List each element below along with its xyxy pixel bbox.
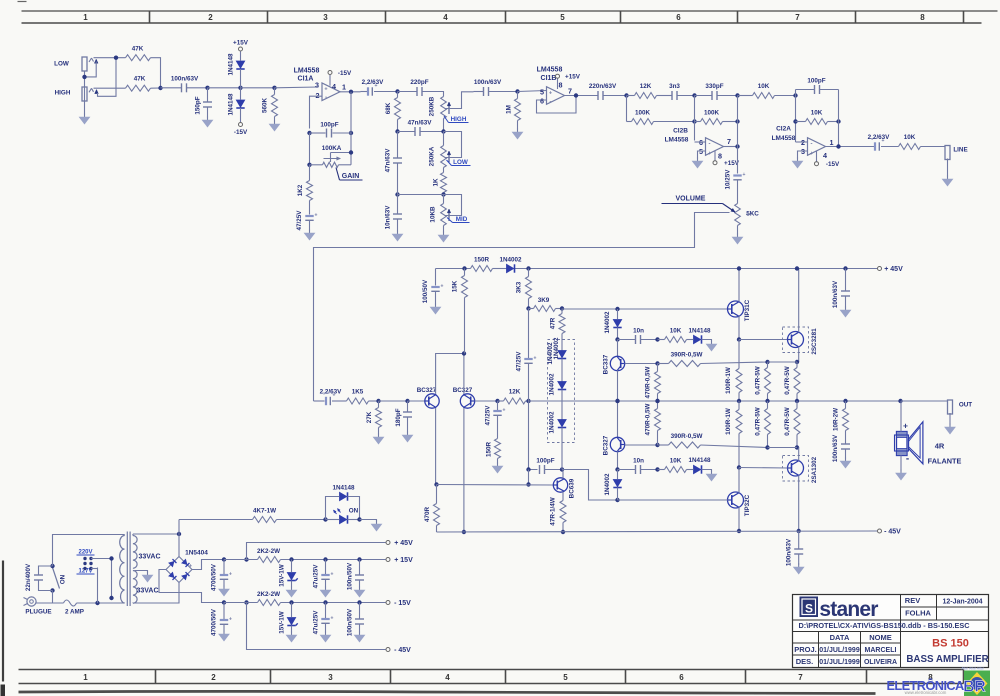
ground (center tap) — [147, 572, 149, 576]
ground (47u pos) — [325, 587, 327, 591]
wire to 47u n — [325, 603, 327, 619]
svg-text:47u/25V: 47u/25V — [313, 564, 320, 589]
watermark ELETRONICA BR — [887, 667, 991, 696]
wire 470R to rail — [657, 394, 659, 402]
wire 150pF to gnd — [207, 107, 209, 118]
wire cap to node G — [489, 91, 518, 93]
wire 470R to 390R row — [657, 431, 659, 446]
wire node to 10K — [658, 339, 665, 341]
node P1 junction — [376, 399, 380, 403]
wire 1K5 to node P1 — [369, 400, 379, 402]
junction — [323, 600, 327, 604]
svg-text:470R-0,5W: 470R-0,5W — [645, 404, 652, 436]
svg-text:150pF: 150pF — [195, 96, 202, 114]
resistor 47R-1/4W — [560, 501, 566, 523]
wire 10R to cap — [845, 431, 847, 445]
wire 100K to node N — [723, 121, 738, 123]
label 220V — [77, 550, 95, 556]
svg-text:100K: 100K — [635, 110, 651, 117]
capacitor 2,2/63V (interstage) — [367, 87, 369, 95]
svg-text:+ 45V: + 45V — [884, 266, 903, 273]
capacitor 100pF (CI1A fb) — [326, 129, 328, 138]
wire diode to node C — [240, 69, 242, 88]
svg-text:390R-0,5W: 390R-0,5W — [671, 433, 703, 440]
wire node I corner — [627, 121, 632, 123]
wire 390R left — [658, 363, 669, 365]
wire BC337 down — [617, 370, 619, 401]
junction — [843, 266, 847, 270]
wire pin2 in — [796, 141, 808, 143]
resistor 0,47R-5W (top right) — [794, 368, 800, 394]
svg-text:47/25V: 47/25V — [485, 405, 492, 426]
svg-text:7: 7 — [795, 13, 800, 22]
junction — [244, 600, 248, 604]
wire 100R to emitter node — [738, 434, 740, 468]
wire fb mid left — [796, 121, 806, 123]
wire 10K to diode — [687, 339, 694, 341]
ground (27K) — [378, 434, 380, 438]
terminal +15V — [239, 47, 243, 51]
svg-text:PROJ.: PROJ. — [794, 645, 817, 654]
capacitor 47u/25V (pos) — [321, 574, 329, 576]
capacitor 2,2/63V (PA input) — [325, 397, 327, 405]
svg-text:15V-1W: 15V-1W — [279, 564, 286, 586]
wire BC639 collector — [562, 470, 564, 479]
svg-text:47n/63V: 47n/63V — [408, 120, 433, 127]
resistor 2K2-2W (neg) — [258, 600, 281, 606]
svg-text:www.eletronicabr.com: www.eletronicabr.com — [905, 690, 947, 695]
junction output rail — [765, 399, 769, 403]
svg-text:CI1A: CI1A — [298, 75, 314, 82]
svg-text:220pF: 220pF — [410, 79, 428, 86]
wire BC639 emitter — [562, 492, 564, 501]
svg-text:12K: 12K — [640, 83, 652, 90]
wire HIGH pot bottom — [443, 119, 445, 132]
junction — [109, 596, 113, 600]
wire cap to volume — [737, 181, 739, 204]
svg-text:REV: REV — [905, 596, 920, 605]
svg-text:150R: 150R — [486, 442, 493, 458]
resistor 3K9 — [534, 306, 556, 312]
ground (OUT) — [949, 424, 951, 428]
wire node E to 220pF — [398, 91, 417, 93]
wire 4K7 to LED node — [277, 519, 326, 521]
svg-text:22n/400V: 22n/400V — [25, 563, 32, 591]
wire res to link bl — [767, 435, 769, 448]
LED ON — [334, 509, 348, 524]
wire cap to 10K — [881, 146, 899, 148]
wire cap plate in — [474, 91, 484, 93]
svg-text:100KA: 100KA — [322, 145, 342, 152]
opamp signs — [549, 91, 552, 106]
wire pin4 stub — [329, 75, 331, 86]
wire 1M to gnd — [517, 121, 519, 130]
wire rail to OUT jack — [901, 400, 948, 402]
svg-text:3: 3 — [323, 13, 328, 22]
wire 3K3 to node — [528, 299, 530, 309]
svg-text:4: 4 — [823, 151, 827, 160]
junction — [655, 467, 659, 471]
svg-text:3: 3 — [315, 81, 319, 90]
junction — [462, 266, 466, 270]
resistor 2K2-2W (pos) — [258, 557, 281, 563]
wire BC327 down — [617, 451, 619, 469]
resistor 150R (rail) — [471, 266, 493, 272]
junction output rail — [795, 399, 799, 403]
wire node J to 330pF — [695, 95, 713, 97]
resistor 470R-0,5W (lower) — [655, 409, 661, 431]
junction — [765, 445, 769, 449]
wire node down to cap — [528, 309, 530, 359]
wire VAS node to 470R — [436, 485, 438, 504]
wire cap bottom — [39, 580, 53, 591]
svg-text:2K2-2W: 2K2-2W — [257, 548, 280, 555]
wire 12K to node P4 — [526, 400, 529, 402]
junction output rail — [843, 399, 847, 403]
wire node E down — [397, 92, 399, 98]
junction — [655, 337, 659, 341]
wire cap to node — [397, 163, 399, 195]
svg-text:4: 4 — [443, 13, 448, 22]
resistor 27K — [376, 408, 382, 428]
resistor 10K (CI2A fb) — [806, 119, 828, 125]
bridge rectifier 1N5404 — [166, 557, 192, 583]
terminal -15V (CI1A) — [328, 71, 332, 75]
label VOLUME — [662, 196, 736, 213]
capacitor 220pF — [416, 87, 418, 96]
wire TIP32C collector — [738, 507, 740, 531]
capacitor 100n/63V (zobel) — [841, 443, 850, 445]
wire 47u gnd — [325, 580, 327, 588]
wire to LED — [326, 519, 340, 521]
svg-text:+: + — [903, 421, 908, 431]
potentiometer 100KA (GAIN) — [323, 153, 352, 168]
svg-text:6: 6 — [676, 13, 681, 22]
resistor 1M — [515, 99, 521, 121]
wire jack sleeve — [84, 71, 86, 115]
wire rail to speaker — [900, 401, 902, 432]
wire 2SA base — [739, 467, 788, 470]
svg-text:250KB: 250KB — [429, 96, 436, 116]
svg-text:4: 4 — [445, 673, 450, 682]
jack J2 HIGH — [82, 87, 87, 101]
svg-text:1K5: 1K5 — [352, 389, 364, 396]
junction — [307, 131, 311, 135]
wire node J down — [694, 96, 696, 141]
wire link to res r — [796, 362, 798, 368]
wire row H — [398, 194, 444, 196]
node J junction — [692, 93, 696, 97]
wire cap to gnd p — [845, 296, 847, 308]
svg-text:2SA1302: 2SA1302 — [811, 456, 818, 483]
wire output rail — [529, 400, 948, 402]
node A junction — [158, 86, 162, 90]
svg-text:4K7-1W: 4K7-1W — [253, 508, 276, 515]
wire node to 10n — [397, 195, 399, 215]
svg-text:33VAC: 33VAC — [138, 554, 160, 561]
junction — [795, 266, 799, 270]
terminal -15V (CI2A) — [815, 162, 819, 166]
wire chain 3 — [561, 428, 563, 470]
junction CI2A out — [836, 144, 840, 148]
wire 330pF to node K — [717, 95, 738, 97]
wire rail to res br — [796, 401, 798, 409]
wire pin2 to feedback — [310, 96, 323, 128]
wire 27K gnd — [378, 428, 380, 435]
capacitor 2,2/63V (line out) — [874, 142, 876, 150]
wire tap link — [91, 559, 112, 599]
ground (10n) — [397, 231, 399, 235]
svg-text:1K2: 1K2 — [297, 184, 304, 196]
junction — [526, 467, 530, 471]
wire out down to cap — [737, 147, 739, 174]
svg-text:HIGH: HIGH — [451, 116, 467, 123]
scan edge left — [2, 561, 4, 682]
resistor 68K — [395, 98, 401, 120]
wire Q2 collector down — [463, 408, 465, 532]
terminal +15V (PSU) — [386, 558, 390, 562]
transistor TIP31C — [728, 301, 744, 317]
svg-text:+15V: +15V — [565, 74, 581, 81]
junction — [737, 337, 741, 341]
wire 10n to gnd — [397, 219, 399, 232]
terminal +45V — [878, 267, 882, 271]
wire 100n gnd n — [359, 624, 361, 633]
top ruler band — [22, 11, 998, 23]
svg-text:1: 1 — [342, 83, 346, 92]
wire to diode — [617, 470, 619, 480]
wire LED out — [348, 519, 360, 521]
svg-text:7: 7 — [727, 137, 731, 146]
wire 47n to pot node — [420, 131, 444, 133]
capacitor 47u/25V (neg) — [321, 618, 329, 620]
wire CI1A out to cap — [361, 91, 368, 93]
wire cap down to P4 — [528, 364, 530, 401]
wire CI1B fb loop — [537, 96, 577, 114]
junction CI1A out — [349, 90, 353, 94]
wire 100n gnd — [359, 580, 361, 588]
wire fuse to transformer — [77, 602, 125, 604]
svg-text:1N4002: 1N4002 — [553, 337, 560, 360]
wire chain mid — [617, 401, 619, 438]
capacitor 150pF — [203, 101, 212, 103]
svg-text:LM4558: LM4558 — [294, 68, 320, 75]
svg-text:2,2/63V: 2,2/63V — [868, 134, 891, 141]
svg-text:100R-1W: 100R-1W — [725, 367, 732, 394]
svg-text:5: 5 — [560, 13, 565, 22]
wire 150R gnd — [497, 459, 499, 464]
svg-text:10/25V: 10/25V — [725, 169, 732, 190]
svg-text:6: 6 — [679, 673, 684, 682]
wire 390R to emitter link — [701, 362, 768, 364]
capacitor 47n/63V (shunt) — [393, 157, 402, 159]
svg-text:10K: 10K — [670, 328, 682, 335]
resistor 3K3 — [526, 277, 532, 299]
ground (bottom snubber) — [711, 471, 713, 475]
wire center tap — [135, 571, 148, 573]
wire node P1 down — [378, 401, 380, 408]
wire chain top — [617, 309, 619, 320]
wire fb top right — [820, 89, 839, 91]
wire node C to node D — [241, 87, 275, 89]
capacitor 4700/50V (pos) — [220, 574, 228, 576]
diode 1N4148 (LED bypass) — [340, 492, 347, 500]
svg-text:100n/63V: 100n/63V — [171, 76, 199, 83]
svg-text:7: 7 — [568, 86, 572, 95]
svg-text:3K3: 3K3 — [516, 281, 523, 293]
svg-text:GAIN: GAIN — [342, 173, 360, 180]
capacitor 100pF (VAS) — [539, 465, 541, 474]
junction — [561, 530, 565, 534]
svg-text:BC327: BC327 — [603, 435, 610, 455]
wire to zener — [291, 560, 293, 573]
svg-text:LM4558: LM4558 — [772, 135, 796, 142]
diode 1N4002 (chain 3) — [558, 420, 566, 427]
ground (100n pos) — [359, 587, 361, 591]
node P2 junction — [405, 399, 409, 403]
junction — [50, 564, 54, 568]
wire +45 branch — [247, 543, 386, 560]
wire node P2 to Q1 — [408, 400, 425, 402]
svg-text:33VAC: 33VAC — [136, 588, 158, 595]
svg-text:1: 1 — [83, 673, 88, 682]
svg-text:3: 3 — [328, 673, 333, 682]
op-amp CI1A — [322, 83, 340, 101]
wire TIP31C collector — [738, 269, 740, 302]
resistor 470R — [434, 504, 440, 526]
node 3K9 junction — [526, 306, 530, 310]
wire secondary top — [133, 533, 179, 535]
jack HIGH contact — [89, 88, 98, 93]
wire LOW pot to 1K — [443, 168, 445, 173]
switch ON — [53, 568, 60, 589]
scan corner blob — [1, 685, 6, 696]
diode 1N4002 (bias bottom) — [613, 480, 621, 487]
wire LOW switch to sleeve — [86, 62, 97, 77]
svg-text:2: 2 — [316, 91, 320, 100]
wire node M to 100K — [695, 121, 701, 123]
svg-text:1N4148: 1N4148 — [688, 457, 711, 464]
wire 47R to rail — [562, 523, 564, 533]
svg-text:HIGH: HIGH — [55, 90, 71, 97]
wire to 47u — [325, 560, 327, 575]
wire MID wiper — [444, 195, 462, 216]
svg-text:68K: 68K — [385, 102, 392, 114]
wire jog to TIP32 base — [562, 470, 618, 501]
wire Q2 emitter up — [463, 354, 465, 394]
wire diode to TIP32 base node — [617, 488, 619, 501]
svg-text:FOLHA: FOLHA — [905, 609, 931, 618]
svg-text:8: 8 — [920, 13, 925, 22]
svg-text:47R-1/4W: 47R-1/4W — [550, 497, 557, 525]
dashed box 2SA1302 — [783, 456, 809, 482]
wire MID pot to gnd — [443, 226, 445, 233]
svg-text:100pF: 100pF — [536, 458, 554, 465]
node H junction — [441, 192, 445, 196]
svg-text:4: 4 — [332, 82, 336, 91]
wire link to res — [767, 362, 769, 368]
jack J1 LOW — [82, 57, 87, 71]
opamp signs — [708, 142, 711, 158]
svg-text:250KA: 250KA — [429, 146, 436, 166]
svg-text:1N4002: 1N4002 — [604, 311, 611, 334]
svg-text:CI2B: CI2B — [673, 128, 688, 135]
resistor 0,47R-5W (bottom right) — [794, 409, 800, 435]
svg-text:+: + — [229, 572, 232, 578]
svg-text:+: + — [441, 284, 444, 290]
svg-text:47/25V: 47/25V — [296, 210, 303, 231]
wire volume to gnd — [737, 226, 739, 235]
svg-text:ON: ON — [349, 508, 359, 515]
junction — [615, 337, 619, 341]
wire 2SC emitter — [798, 347, 800, 362]
wire 470R to -rail — [436, 526, 438, 533]
wire fb right — [333, 132, 352, 134]
scan edge bottom — [19, 691, 876, 693]
svg-text:12K: 12K — [509, 389, 521, 396]
wire res to rail — [767, 394, 769, 402]
junction — [323, 517, 327, 521]
label HIGH — [444, 116, 469, 123]
junction — [615, 307, 619, 311]
terminal +15V (CI1B) — [556, 74, 560, 78]
svg-text:0,47R-5W: 0,47R-5W — [784, 366, 791, 394]
wire LED to gnd — [360, 520, 377, 522]
junction — [526, 266, 530, 270]
wire TIP31C emitter — [738, 316, 740, 339]
svg-text:100n/50V: 100n/50V — [347, 562, 354, 590]
svg-text:100R-1W: 100R-1W — [725, 408, 732, 435]
wire node L vertical — [795, 90, 797, 143]
wire volume wiper to PA — [746, 214, 752, 216]
svg-text:0,47R-5W: 0,47R-5W — [784, 407, 791, 435]
wire cap to gnd n — [223, 625, 225, 632]
svg-text:TIP31C: TIP31C — [744, 299, 751, 321]
potentiometer 5KC (VOLUME) — [735, 204, 741, 226]
terminal -45V — [878, 529, 882, 533]
dashed box 2SC3281 — [783, 327, 809, 353]
wire node I down — [626, 96, 628, 122]
wire 390R left b — [658, 444, 669, 446]
wire node to 10K b — [658, 469, 665, 471]
svg-text:27K: 27K — [366, 411, 373, 423]
junction — [349, 150, 353, 154]
svg-text:1N4002: 1N4002 — [549, 411, 556, 434]
transistor Q2 BC327 — [460, 394, 474, 408]
transistor Q1 BC327 — [425, 394, 439, 408]
node K junction — [735, 93, 739, 97]
capacitor 100n/63V (to CI1B) — [483, 87, 485, 96]
potentiometer 250KB (HIGH) — [441, 97, 451, 119]
wire 47K to node — [151, 58, 161, 88]
resistor 4K7-1W — [253, 517, 277, 523]
label LOW — [447, 159, 471, 166]
ground (560K) — [274, 121, 276, 125]
junction — [797, 529, 801, 533]
svg-text:100n/63V: 100n/63V — [832, 280, 839, 308]
svg-text:100n/63V: 100n/63V — [786, 538, 793, 566]
resistor 15K — [462, 276, 468, 298]
junction — [795, 445, 799, 449]
transistor BC639 — [553, 478, 567, 492]
staner logo — [800, 597, 878, 621]
svg-text:+: + — [549, 91, 552, 97]
wire fb mid right — [828, 121, 839, 123]
wire 2SC collector — [798, 269, 800, 333]
resistor 47K (LOW) — [126, 55, 151, 61]
capacitor 47/25V (Q2 base) — [493, 410, 501, 412]
wire rail to 10R — [845, 401, 847, 409]
